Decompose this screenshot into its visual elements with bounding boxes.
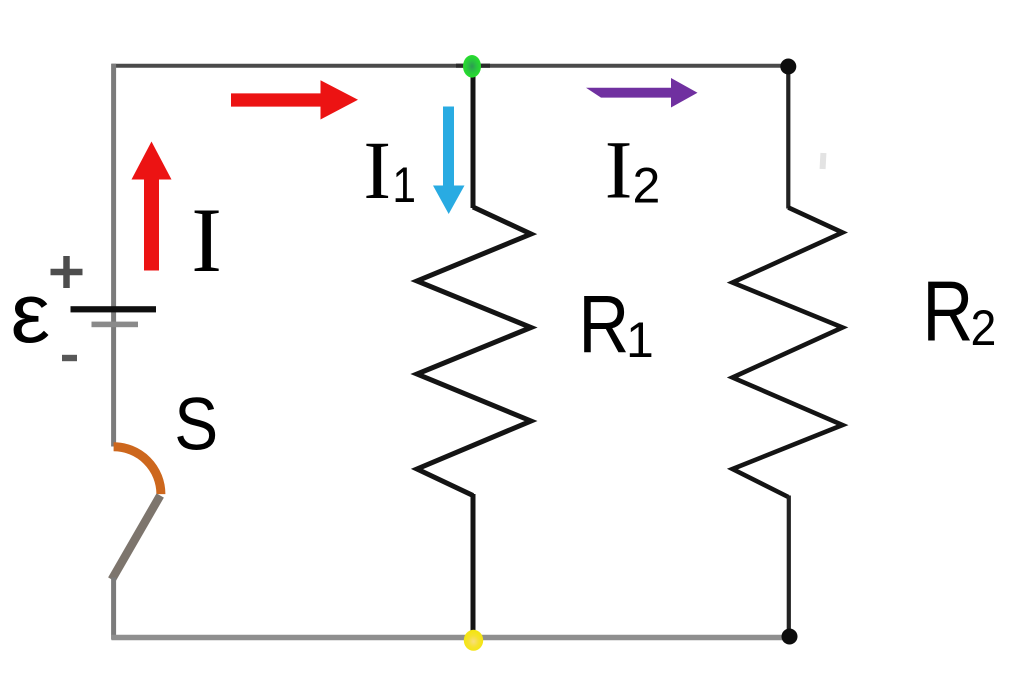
node bottom-right (black junction): [782, 629, 798, 645]
node top-right (black junction): [780, 59, 796, 75]
label I1: [363, 124, 416, 216]
svg-text:2: 2: [971, 300, 997, 356]
wire bottom (bottom-left corner to bottom-right node): [112, 635, 791, 641]
wire middle branch upper (node A down to R1): [471, 66, 476, 208]
label epsilon (EMF): [11, 267, 51, 360]
wire top (node A to top-right corner): [112, 64, 791, 68]
battery minus sign: [62, 355, 77, 361]
svg-text:I: I: [363, 124, 391, 216]
battery plus sign: [51, 256, 83, 288]
wire right branch lower (R2 down to bottom-right node): [787, 496, 791, 637]
svg-text:S: S: [174, 383, 218, 465]
wire right branch upper (top-right node down to R2): [786, 66, 790, 209]
resistor R1 (zigzag): [417, 207, 531, 496]
current arrow I (red, up): [132, 142, 172, 271]
label S: [174, 383, 218, 465]
node A (green junction, top center): [463, 55, 481, 78]
label I: [191, 189, 222, 291]
current arrow I1 (cyan, down): [433, 107, 465, 215]
wire stub at node A (darker): [456, 64, 490, 68]
svg-text:R: R: [578, 280, 629, 371]
battery (EMF source): [71, 306, 157, 327]
wire left lower (switch to bottom-left corner): [111, 578, 116, 640]
switch S (gray blade, open): [112, 496, 160, 580]
svg-text:1: 1: [626, 312, 654, 368]
label I2: [605, 124, 661, 216]
label R1: [578, 280, 653, 371]
svg-text:I: I: [191, 189, 222, 291]
label R2: [922, 263, 996, 359]
wire left vertical (top-left corner down through battery to switch): [111, 64, 116, 447]
resistor R2 (zigzag): [733, 208, 843, 498]
svg-text:R: R: [922, 263, 973, 359]
svg-text:I: I: [605, 124, 633, 216]
faint artifact mark: [820, 153, 827, 169]
switch S (orange arc contact): [114, 447, 161, 494]
current arrow I2 (purple, right): [586, 78, 698, 108]
node B (yellow junction, bottom center): [464, 630, 483, 651]
svg-text:ε: ε: [11, 267, 51, 360]
svg-text:2: 2: [633, 158, 661, 214]
svg-text:1: 1: [392, 157, 416, 213]
current arrow main loop (red, right): [231, 80, 358, 119]
wire middle branch lower (R1 down to node B): [471, 494, 476, 634]
